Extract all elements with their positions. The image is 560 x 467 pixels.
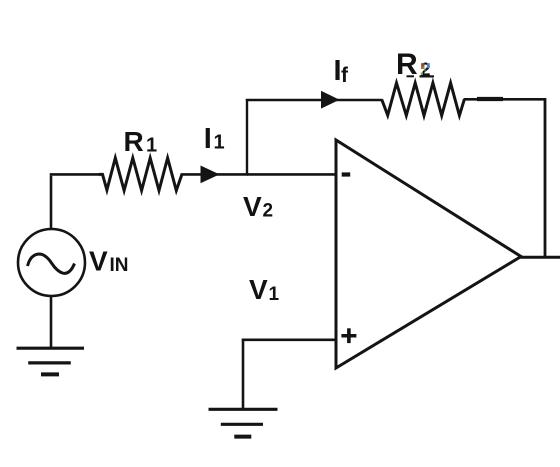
wire R1 to node [181,173,249,176]
wire non-inverting input [242,338,337,341]
wire source top lead [50,176,53,230]
svg-text:1: 1 [269,284,280,305]
svg-text:I: I [204,123,212,155]
svg-text:IN: IN [110,255,129,276]
resistor R2 [382,83,465,116]
op-amp U1 [336,140,521,368]
svg-text:2: 2 [263,201,274,222]
node V2 junction wire to op-amp [247,173,337,176]
svg-text:V: V [89,246,108,277]
svg-text:1: 1 [214,131,225,153]
AC source sine wave [28,254,75,273]
svg-text:R: R [124,126,144,157]
current arrow If [321,91,340,109]
label R2 underline dashes [407,75,415,77]
svg-text:1: 1 [146,134,157,156]
wire feedback horizontal [246,99,383,102]
wire input left segment [50,173,100,176]
svg-text:V: V [243,191,262,222]
svg-text:f: f [341,64,349,87]
op-amp minus sign [342,172,351,176]
AC source VIN circle [18,229,85,296]
wire overlap thick segment [477,97,503,101]
wire source bottom lead [50,296,53,349]
wire to right ground [242,339,245,410]
wire R2 right lead [464,98,547,101]
wire output [518,256,560,259]
ground (left) [17,348,85,374]
wire feedback tap vertical [246,99,248,176]
current arrow I1 [201,166,220,184]
ground (right) [209,409,278,436]
op-amp plus sign [341,334,356,338]
resistor R1 [99,158,182,191]
wire feedback vertical right [544,98,547,258]
svg-text:V: V [249,274,268,305]
label R2 artifact colors [421,63,425,69]
